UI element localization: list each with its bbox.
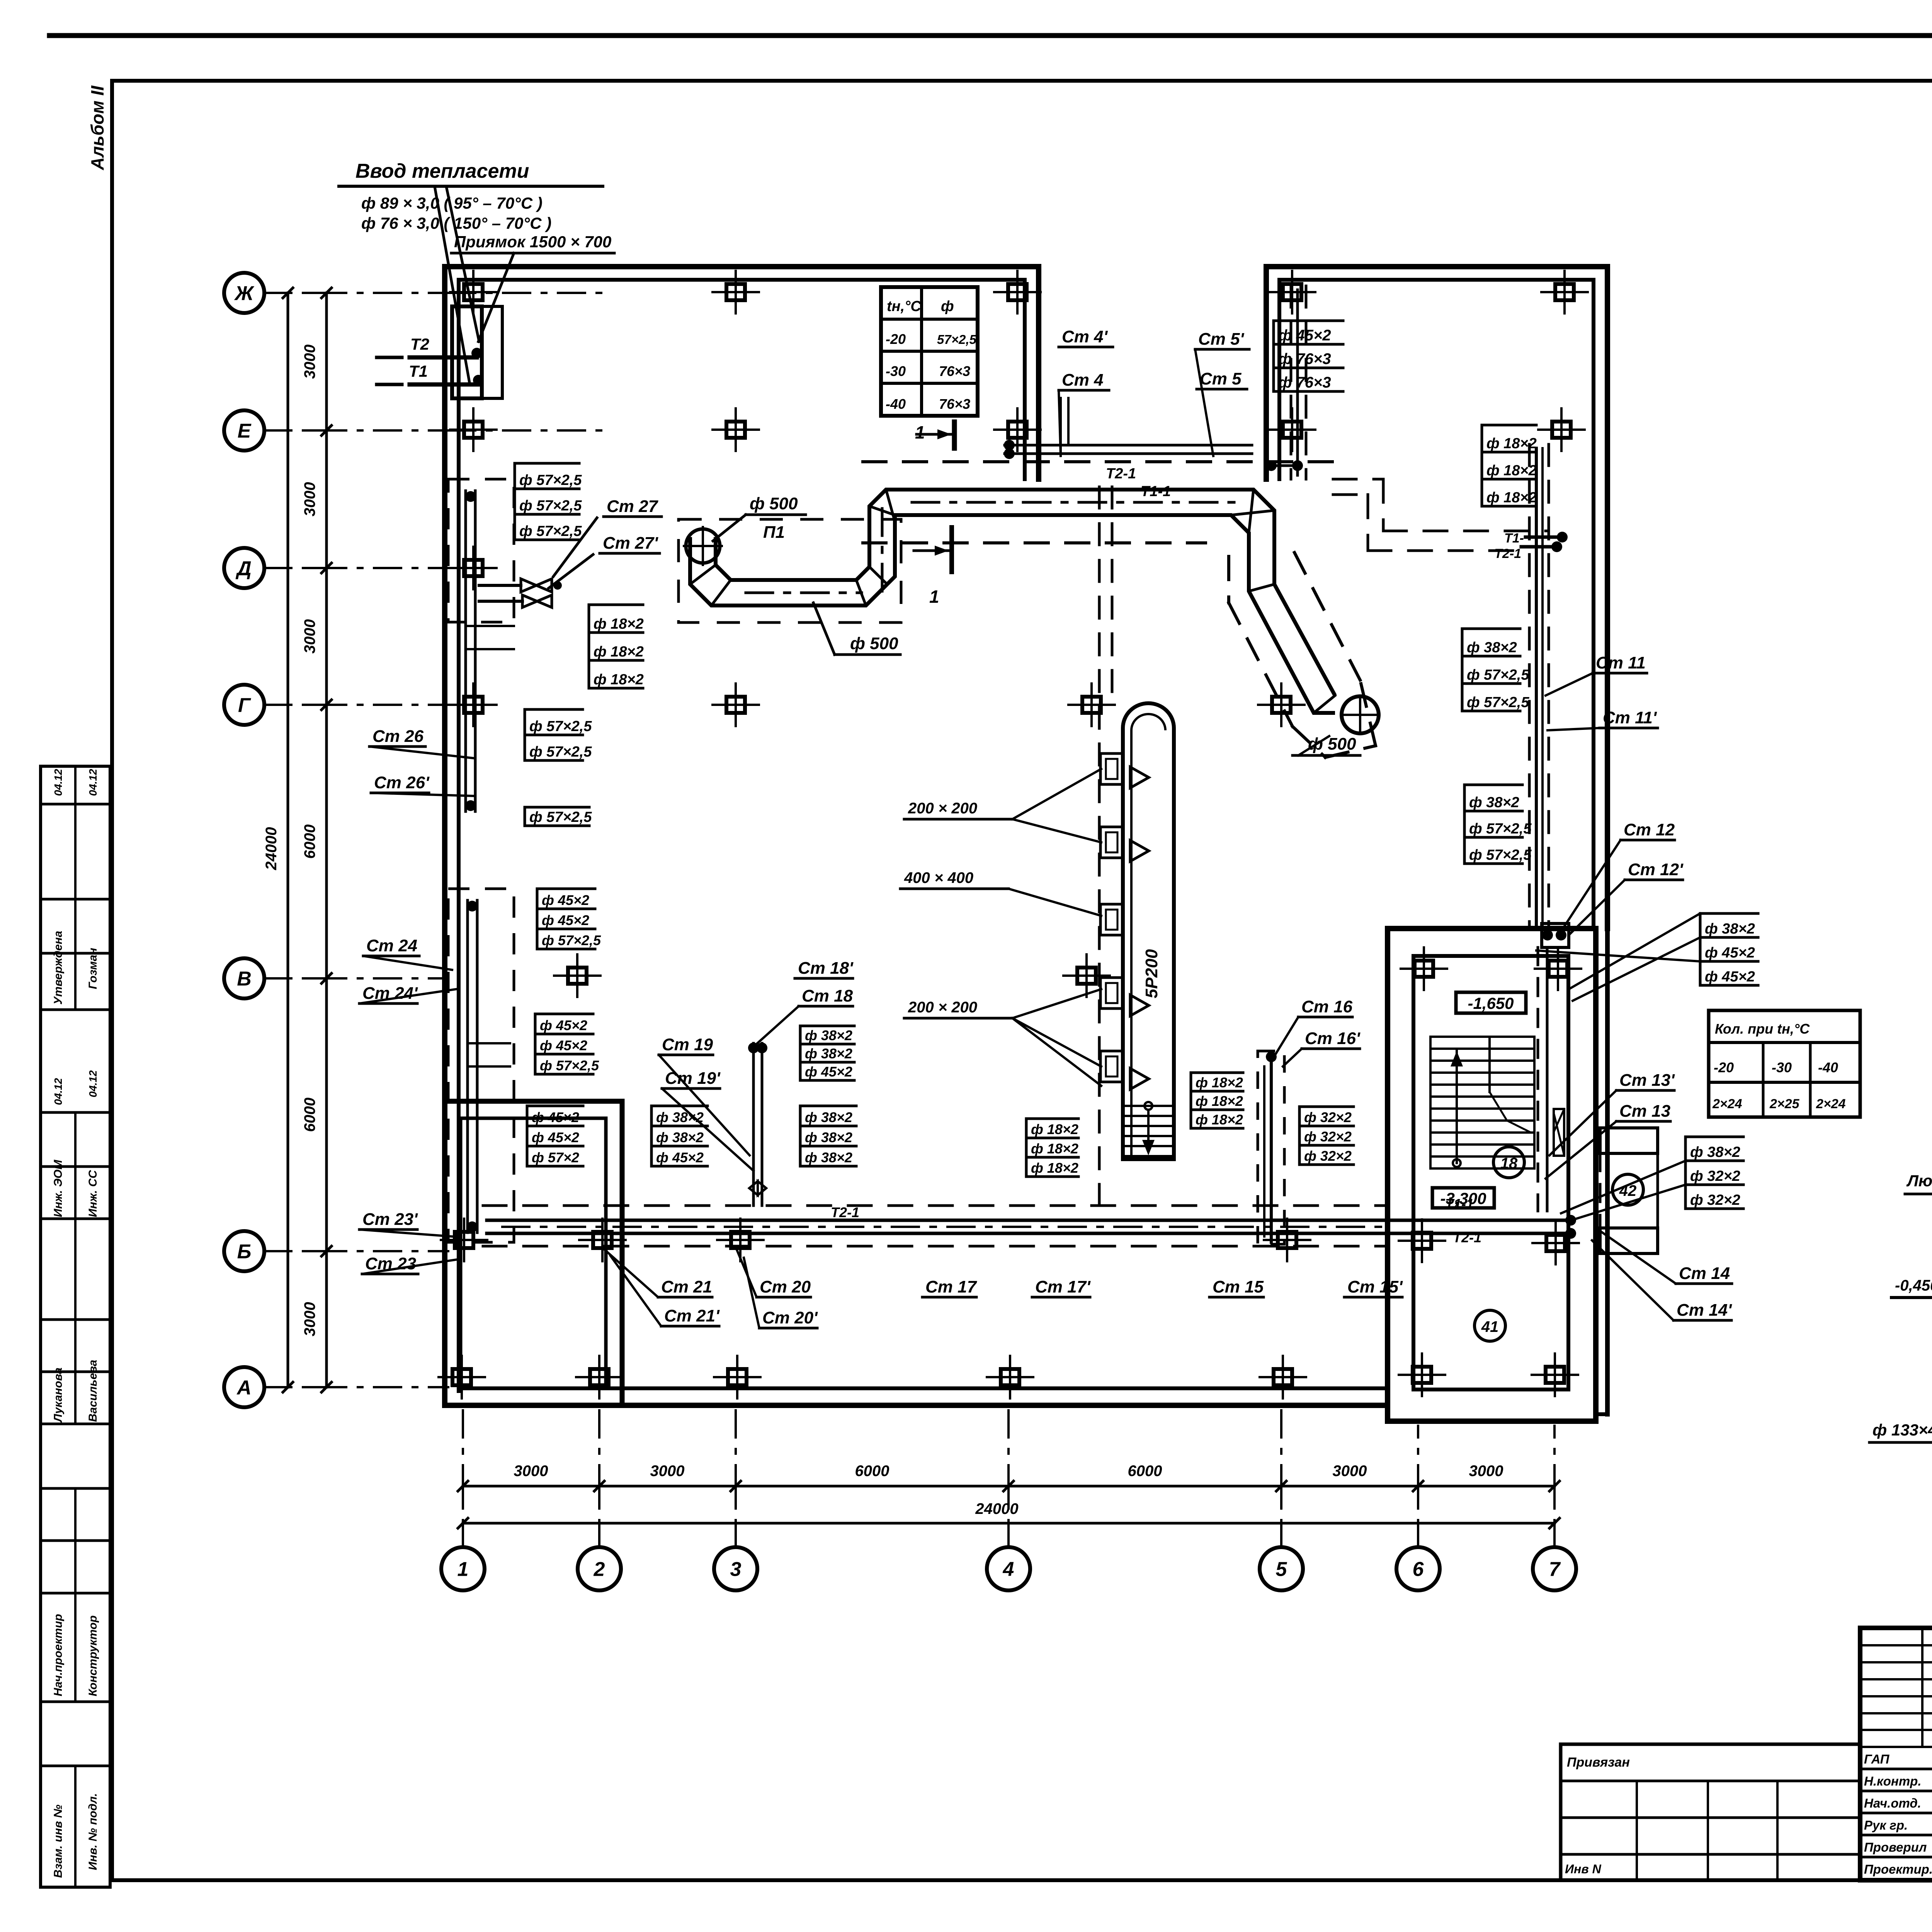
svg-text:ф 32×2: ф 32×2 <box>1690 1192 1740 1208</box>
svg-text:ф 32×2: ф 32×2 <box>1304 1109 1352 1125</box>
bottom total dimension 24000 <box>458 1500 1560 1528</box>
svg-text:Кол. при tн,°C: Кол. при tн,°C <box>1715 1021 1810 1037</box>
svg-text:Ст 4': Ст 4' <box>1062 327 1108 346</box>
svg-text:ф 32×2: ф 32×2 <box>1690 1168 1740 1184</box>
label St16' <box>1283 1029 1361 1066</box>
top-right block left channel <box>1266 286 1306 479</box>
right vertical channel dashed <box>1529 444 1549 927</box>
label 200x200 lower <box>904 989 1101 1086</box>
svg-text:-40: -40 <box>886 396 906 412</box>
label St5' <box>1195 330 1249 456</box>
stack phi38-57 right-a <box>1462 629 1529 711</box>
corridor extension dashes right <box>1333 479 1568 561</box>
stack phi32 mid <box>1299 1107 1354 1165</box>
building bottom wall <box>445 1388 1388 1405</box>
svg-text:5: 5 <box>1276 1558 1287 1581</box>
stack phi38-45 right of stair <box>1700 913 1758 985</box>
svg-text:Ст 12': Ст 12' <box>1628 860 1684 879</box>
svg-text:3000: 3000 <box>301 345 318 379</box>
label 400x400 <box>900 869 1101 916</box>
label St14 <box>1600 1231 1732 1284</box>
svg-text:04.12: 04.12 <box>87 769 99 796</box>
svg-text:Утверждена: Утверждена <box>52 931 65 1005</box>
title block signatures <box>1864 1732 1932 1876</box>
svg-text:Нач.проектир: Нач.проектир <box>52 1614 65 1696</box>
svg-text:ф 45×2: ф 45×2 <box>1705 945 1755 961</box>
svg-text:ф: ф <box>941 298 954 315</box>
svg-text:ф 38×2: ф 38×2 <box>1690 1144 1740 1160</box>
left extension table <box>1561 1744 1860 1880</box>
corridor channel pipes <box>905 398 1252 515</box>
stack phi45 center-b <box>527 1106 583 1166</box>
stack phi45 B <box>537 889 601 949</box>
label ф500 diagonal <box>1293 735 1360 755</box>
svg-text:ф 45×2: ф 45×2 <box>532 1109 579 1125</box>
svg-text:ф 45×2: ф 45×2 <box>540 1017 587 1033</box>
svg-text:ф 57×2,5: ф 57×2,5 <box>540 1058 599 1073</box>
kol table <box>1709 1010 1860 1117</box>
svg-text:В: В <box>237 968 252 990</box>
duct dashed outline <box>679 519 901 622</box>
svg-text:Проверил: Проверил <box>1864 1840 1927 1854</box>
svg-text:Ст 26: Ст 26 <box>372 727 424 746</box>
diagonal channel to Ф500 <box>1229 553 1379 757</box>
album label rotated <box>87 85 107 170</box>
label St23' <box>359 1210 452 1236</box>
svg-text:-0,450: -0,450 <box>1895 1277 1932 1294</box>
svg-text:ф 18×2: ф 18×2 <box>1031 1141 1078 1156</box>
vent shaft capsule <box>1123 703 1174 1159</box>
labels St13 <box>1549 1071 1675 1155</box>
left dimension chain 3000/6000 <box>301 288 344 1392</box>
svg-text:Ст 21': Ст 21' <box>664 1306 720 1325</box>
svg-text:ф 57×2,5: ф 57×2,5 <box>529 718 592 735</box>
svg-text:Е: Е <box>238 420 252 442</box>
svg-text:ф 18×2: ф 18×2 <box>1031 1160 1078 1176</box>
svg-text:2: 2 <box>594 1558 605 1581</box>
label St14' <box>1592 1240 1732 1320</box>
svg-text:04.12: 04.12 <box>52 769 64 796</box>
svg-text:Ст 15: Ст 15 <box>1213 1277 1264 1296</box>
svg-text:Ст 12: Ст 12 <box>1624 820 1675 839</box>
label St16 <box>1275 997 1353 1055</box>
svg-text:24000: 24000 <box>975 1500 1018 1517</box>
svg-text:Ст 11': Ст 11' <box>1603 708 1657 727</box>
pipe T1 stub <box>377 362 484 386</box>
svg-text:Т2-1: Т2-1 <box>831 1204 859 1220</box>
building right wall below stair block <box>1596 929 1607 1414</box>
svg-text:ф 45×2: ф 45×2 <box>1705 969 1755 985</box>
svg-text:Т1-: Т1- <box>1504 531 1524 546</box>
svg-text:Инв. № подл.: Инв. № подл. <box>87 1793 99 1870</box>
svg-text:Ст 13: Ст 13 <box>1619 1102 1670 1121</box>
center riser pipes <box>748 1043 767 1206</box>
label St4' <box>1059 327 1113 347</box>
stair elevation -3.300 <box>1432 1188 1494 1208</box>
svg-text:7: 7 <box>1549 1558 1561 1581</box>
svg-text:Ст 16': Ст 16' <box>1305 1029 1361 1048</box>
building top wall left block <box>445 267 1039 280</box>
svg-text:ф 45×2: ф 45×2 <box>540 1037 587 1053</box>
svg-text:6000: 6000 <box>855 1463 889 1480</box>
svg-text:1: 1 <box>929 587 939 607</box>
svg-text:Т1-1: Т1-1 <box>1445 1196 1474 1212</box>
svg-text:ф 18×2: ф 18×2 <box>1196 1093 1243 1109</box>
label St27 <box>553 497 662 577</box>
svg-text:24000: 24000 <box>263 827 280 870</box>
svg-text:ф 18×2: ф 18×2 <box>1486 463 1537 479</box>
corridor channel dashed outline <box>863 462 1333 543</box>
stack phi18 center <box>1026 1119 1078 1177</box>
svg-text:6000: 6000 <box>301 1098 318 1132</box>
stack phi38 center-d <box>800 1106 856 1166</box>
svg-text:ф 45×2: ф 45×2 <box>1278 327 1331 344</box>
stair elevation -1.650 <box>1456 992 1526 1013</box>
svg-text:Б: Б <box>237 1241 252 1263</box>
svg-text:-40: -40 <box>1818 1060 1838 1075</box>
svg-text:ф 38×2: ф 38×2 <box>656 1109 704 1125</box>
svg-text:1: 1 <box>457 1558 469 1581</box>
riser St19 <box>659 1035 750 1155</box>
svg-text:ф 38×2: ф 38×2 <box>1467 639 1517 656</box>
heat input pipe spec 2 <box>361 214 551 232</box>
stack phi57 mid <box>525 709 592 760</box>
stack phi18 right of capsule <box>1191 1073 1243 1128</box>
bottom axis circles and lines <box>441 1406 1576 1590</box>
columns <box>439 271 1588 1398</box>
svg-text:Альбом II: Альбом II <box>87 85 107 170</box>
svg-text:Ст 16: Ст 16 <box>1301 997 1353 1016</box>
label St11 <box>1546 653 1647 696</box>
svg-text:ГАП: ГАП <box>1864 1752 1890 1766</box>
svg-text:57×2,5: 57×2,5 <box>937 332 976 347</box>
room bottom-left walls <box>445 1101 622 1405</box>
svg-text:Н.контр.: Н.контр. <box>1864 1774 1921 1788</box>
room number 41 <box>1475 1310 1505 1341</box>
stair block outer walls <box>1388 929 1596 1421</box>
svg-text:Проектир.: Проектир. <box>1864 1862 1932 1876</box>
stack phi38 center-a <box>800 1026 854 1080</box>
duct opening circle Ф500 <box>684 527 722 565</box>
svg-text:ф 57×2: ф 57×2 <box>532 1150 579 1165</box>
label St24 <box>363 936 452 970</box>
label St26' <box>371 773 475 796</box>
svg-text:Ст 17: Ст 17 <box>925 1277 978 1296</box>
svg-text:ф 18×2: ф 18×2 <box>1196 1075 1243 1090</box>
svg-text:ф 18×2: ф 18×2 <box>594 672 644 688</box>
bottom dimension chain <box>458 1463 1560 1503</box>
svg-text:-30: -30 <box>886 363 906 379</box>
svg-text:2×24: 2×24 <box>1712 1097 1742 1111</box>
svg-text:ф 38×2: ф 38×2 <box>1469 794 1519 811</box>
svg-text:Т2: Т2 <box>410 335 429 353</box>
svg-text:Приямок 1500 × 700: Приямок 1500 × 700 <box>454 233 611 251</box>
svg-text:Ст 18': Ст 18' <box>798 959 854 978</box>
svg-text:18: 18 <box>1500 1155 1518 1172</box>
label f133x4 <box>1869 1356 1932 1442</box>
svg-text:3000: 3000 <box>1469 1463 1503 1480</box>
svg-text:Ст 5: Ст 5 <box>1200 369 1242 388</box>
svg-text:Инж. ЭОМ: Инж. ЭОМ <box>52 1160 65 1217</box>
label St24' <box>359 984 456 1003</box>
svg-text:3000: 3000 <box>301 482 318 517</box>
transition room 42 outline <box>1600 1128 1658 1253</box>
riser St21' <box>611 1256 720 1326</box>
svg-text:Инж. СС: Инж. СС <box>87 1170 99 1217</box>
riser St17 <box>922 1277 978 1297</box>
svg-text:Т1-1: Т1-1 <box>1141 483 1171 500</box>
channel labels T1-1 T2-1 center <box>831 1196 1481 1245</box>
svg-text:04.12: 04.12 <box>52 1078 64 1105</box>
svg-text:3000: 3000 <box>301 619 318 654</box>
svg-text:ф 18×2: ф 18×2 <box>594 644 644 660</box>
riser St20' <box>744 1258 818 1328</box>
left attributes table <box>41 766 110 1887</box>
svg-text:ф 57×2,5: ф 57×2,5 <box>519 498 582 514</box>
svg-text:Ст 26': Ст 26' <box>374 773 430 792</box>
row axis circles and lines <box>224 273 607 1407</box>
duct label ф500 lower <box>813 603 900 655</box>
svg-text:ф 18×2: ф 18×2 <box>1031 1121 1078 1137</box>
svg-text:6000: 6000 <box>301 825 318 859</box>
svg-text:3: 3 <box>730 1558 742 1581</box>
svg-text:3000: 3000 <box>514 1463 548 1480</box>
svg-text:Привязан: Привязан <box>1567 1755 1630 1770</box>
svg-text:2×25: 2×25 <box>1769 1097 1800 1111</box>
stair inner channel <box>1538 947 1564 1211</box>
corridor right elbow down <box>1217 490 1274 572</box>
svg-text:Гозман: Гозман <box>87 948 99 989</box>
temperature table <box>881 287 978 416</box>
label St27' <box>549 534 660 588</box>
svg-text:Ст 21: Ст 21 <box>661 1277 712 1296</box>
svg-text:Конструктор: Конструктор <box>87 1616 99 1696</box>
svg-text:41: 41 <box>1481 1318 1499 1335</box>
svg-text:Ст 23': Ст 23' <box>362 1210 418 1229</box>
svg-text:ф 57×2,5: ф 57×2,5 <box>542 932 601 948</box>
svg-text:Ввод тепласети: Ввод тепласети <box>355 160 529 182</box>
stack phi57 low <box>525 807 592 826</box>
label St4 <box>1059 371 1109 456</box>
svg-text:ф 18×2: ф 18×2 <box>1486 435 1537 452</box>
hatch label Люк 350x350 <box>1905 1172 1932 1275</box>
svg-text:ф 45×2: ф 45×2 <box>542 912 589 928</box>
svg-text:ф 57×2,5: ф 57×2,5 <box>519 472 582 488</box>
riser St18 <box>757 986 853 1043</box>
svg-text:Ст 11: Ст 11 <box>1596 653 1646 672</box>
svg-text:Ст 17': Ст 17' <box>1035 1277 1091 1296</box>
label 200x200 upper <box>904 769 1101 842</box>
svg-text:ф 57×2,5: ф 57×2,5 <box>1469 821 1532 837</box>
svg-text:Ст 19': Ст 19' <box>665 1069 721 1088</box>
svg-text:Д: Д <box>235 558 252 580</box>
riser St18' <box>795 959 854 978</box>
left block right wall (notch) <box>1025 267 1039 479</box>
svg-text:Ст 14': Ст 14' <box>1677 1301 1732 1320</box>
riser St20 <box>736 1248 811 1297</box>
svg-text:ф 500: ф 500 <box>850 634 898 653</box>
channel St16 pipe <box>1264 1051 1277 1242</box>
svg-text:ф 45×2: ф 45×2 <box>805 1064 852 1080</box>
svg-text:ф 18×2: ф 18×2 <box>1196 1112 1243 1128</box>
svg-text:Т2-1: Т2-1 <box>1106 466 1136 482</box>
valves at wall <box>479 579 562 607</box>
svg-text:Васильева: Васильева <box>87 1360 99 1422</box>
svg-text:Нач.отд.: Нач.отд. <box>1864 1796 1921 1810</box>
svg-text:04.12: 04.12 <box>87 1070 99 1097</box>
label St12 <box>1565 820 1675 925</box>
svg-text:Г: Г <box>238 694 251 717</box>
sheet top edge line <box>49 33 1932 38</box>
building inner wall left <box>457 280 461 1391</box>
stair flight <box>1430 1037 1534 1168</box>
duct U-channel <box>690 490 905 605</box>
svg-text:Люк 350×350: Люк 350×350 <box>1906 1172 1932 1190</box>
label St23 <box>362 1254 456 1274</box>
svg-text:tн,°C: tн,°C <box>887 298 921 315</box>
svg-text:ф 76×3: ф 76×3 <box>1278 374 1331 391</box>
svg-text:76×3: 76×3 <box>939 363 970 379</box>
svg-text:Рук гр.: Рук гр. <box>1864 1818 1908 1832</box>
svg-text:76×3: 76×3 <box>939 396 970 412</box>
svg-text:ф 57×2,5: ф 57×2,5 <box>529 809 592 825</box>
pit inner lines <box>482 306 502 398</box>
svg-text:ф 57×2,5: ф 57×2,5 <box>1467 694 1529 711</box>
stair block inner walls <box>1413 956 1568 1389</box>
svg-text:Ст 27: Ст 27 <box>607 497 659 516</box>
svg-text:-20: -20 <box>886 331 906 347</box>
riser St19' <box>662 1069 753 1171</box>
stack phi38-32 far right <box>1685 1137 1743 1209</box>
svg-text:ф 45×2: ф 45×2 <box>532 1129 579 1145</box>
svg-text:4: 4 <box>1003 1558 1014 1581</box>
stack phi45 top right <box>1274 321 1343 391</box>
riser St17' <box>1032 1277 1091 1297</box>
svg-text:ф 38×2: ф 38×2 <box>805 1109 852 1125</box>
stack phi18 topright room <box>1482 425 1537 506</box>
svg-text:ф 18×2: ф 18×2 <box>594 616 644 632</box>
svg-text:Инв N: Инв N <box>1565 1862 1602 1876</box>
room number 42 <box>1612 1174 1643 1205</box>
svg-text:Ст 27': Ст 27' <box>603 534 658 553</box>
heat input pit rectangle <box>452 306 482 398</box>
svg-text:Ст 18: Ст 18 <box>802 986 853 1005</box>
svg-text:3000: 3000 <box>301 1302 318 1337</box>
section mark 1 lower <box>914 527 952 607</box>
svg-text:200 × 200: 200 × 200 <box>908 800 977 817</box>
leader heat input <box>435 187 479 383</box>
pit label Приямок 1500x700 <box>451 233 614 342</box>
elevation -0.450 detail <box>1891 1277 1932 1337</box>
svg-text:Взам. инв №: Взам. инв № <box>52 1804 65 1878</box>
stack phi38 center-c <box>651 1106 707 1166</box>
svg-text:А: А <box>236 1377 252 1399</box>
svg-text:Ст 5': Ст 5' <box>1198 330 1245 349</box>
svg-text:ф 45×2: ф 45×2 <box>542 892 589 908</box>
building outer wall left <box>442 267 447 1405</box>
stack phi45 B2 <box>535 1014 599 1074</box>
svg-text:ф 76×3: ф 76×3 <box>1278 350 1331 367</box>
label St26 <box>369 727 473 758</box>
svg-text:ф 38×2: ф 38×2 <box>656 1129 704 1145</box>
svg-text:ф 57×2,5: ф 57×2,5 <box>519 523 582 539</box>
svg-text:Луканова: Луканова <box>52 1367 65 1423</box>
main channel pipes T1-1 T2-1 <box>487 1215 1576 1239</box>
svg-text:Ст 15': Ст 15' <box>1347 1277 1403 1296</box>
svg-text:ф 38×2: ф 38×2 <box>805 1027 852 1043</box>
svg-text:Т1: Т1 <box>409 362 428 380</box>
label St12' <box>1569 860 1684 935</box>
left riser pipes lower <box>467 900 510 1233</box>
channel dashed outline upper-left <box>448 479 514 622</box>
section mark 1 upper <box>915 422 954 448</box>
stack phi38-57 right-b <box>1464 785 1532 864</box>
svg-text:ф 500: ф 500 <box>750 494 798 513</box>
left riser pipes upper <box>465 491 514 811</box>
svg-text:ф 32×2: ф 32×2 <box>1304 1148 1352 1164</box>
corridor labels T2-1 T1-1 <box>1106 466 1171 500</box>
svg-text:3000: 3000 <box>650 1463 685 1480</box>
riser St15 <box>1209 1277 1264 1297</box>
left total dimension 24000 <box>263 288 293 1392</box>
stair entry channel box <box>1542 923 1569 947</box>
stack phi18 left <box>589 605 644 688</box>
svg-text:6: 6 <box>1413 1558 1424 1581</box>
riser St21 <box>603 1248 712 1297</box>
duct boxes on shaft <box>1100 753 1149 1089</box>
duct label ф500 П1 <box>713 494 806 542</box>
room number 18 <box>1493 1147 1524 1178</box>
svg-text:Ст 4: Ст 4 <box>1062 371 1104 389</box>
svg-text:200 × 200: 200 × 200 <box>908 999 977 1016</box>
svg-text:-20: -20 <box>1714 1060 1734 1075</box>
title block outline <box>1860 1628 1932 1880</box>
svg-text:ф 38×2: ф 38×2 <box>1705 921 1755 937</box>
svg-text:Ст 24: Ст 24 <box>366 936 417 955</box>
svg-text:ф 57×2,5: ф 57×2,5 <box>529 744 592 760</box>
svg-text:ф 18×2: ф 18×2 <box>1486 490 1537 506</box>
riser St15' <box>1344 1277 1403 1297</box>
svg-text:5Р200: 5Р200 <box>1142 949 1161 998</box>
channel dashed outline lower-left <box>448 889 514 1242</box>
svg-text:3000: 3000 <box>1333 1463 1367 1480</box>
svg-text:П1: П1 <box>763 523 785 542</box>
svg-text:ф 133×4: ф 133×4 <box>1872 1421 1932 1439</box>
svg-text:Ж: Ж <box>234 282 255 305</box>
label St11' <box>1548 708 1658 730</box>
svg-text:-1,650: -1,650 <box>1468 994 1514 1012</box>
label St5 <box>1197 369 1247 389</box>
svg-text:Ст 20: Ст 20 <box>760 1277 811 1296</box>
svg-text:ф 32×2: ф 32×2 <box>1304 1129 1352 1145</box>
svg-text:Ст 19: Ст 19 <box>662 1035 713 1054</box>
pipe T2 stub <box>377 335 482 359</box>
svg-text:ф 38×2: ф 38×2 <box>805 1129 852 1145</box>
svg-text:ф 38×2: ф 38×2 <box>805 1046 852 1061</box>
svg-text:400 × 400: 400 × 400 <box>904 869 973 886</box>
main channel dashed outline <box>483 1206 1388 1246</box>
heat input text Ввод тепласети <box>339 160 603 186</box>
svg-text:Ст 20': Ст 20' <box>762 1308 818 1327</box>
stack phi57 upper <box>515 463 582 540</box>
right vertical channel pipes <box>1536 448 1543 927</box>
svg-text:ф 38×2: ф 38×2 <box>805 1150 852 1165</box>
heat input pipe spec 1 <box>361 194 543 212</box>
leaders to St13 area <box>1561 1161 1685 1221</box>
svg-text:Ст 13': Ст 13' <box>1619 1071 1675 1090</box>
top-right block walls <box>1266 267 1607 929</box>
svg-text:1: 1 <box>915 422 925 442</box>
